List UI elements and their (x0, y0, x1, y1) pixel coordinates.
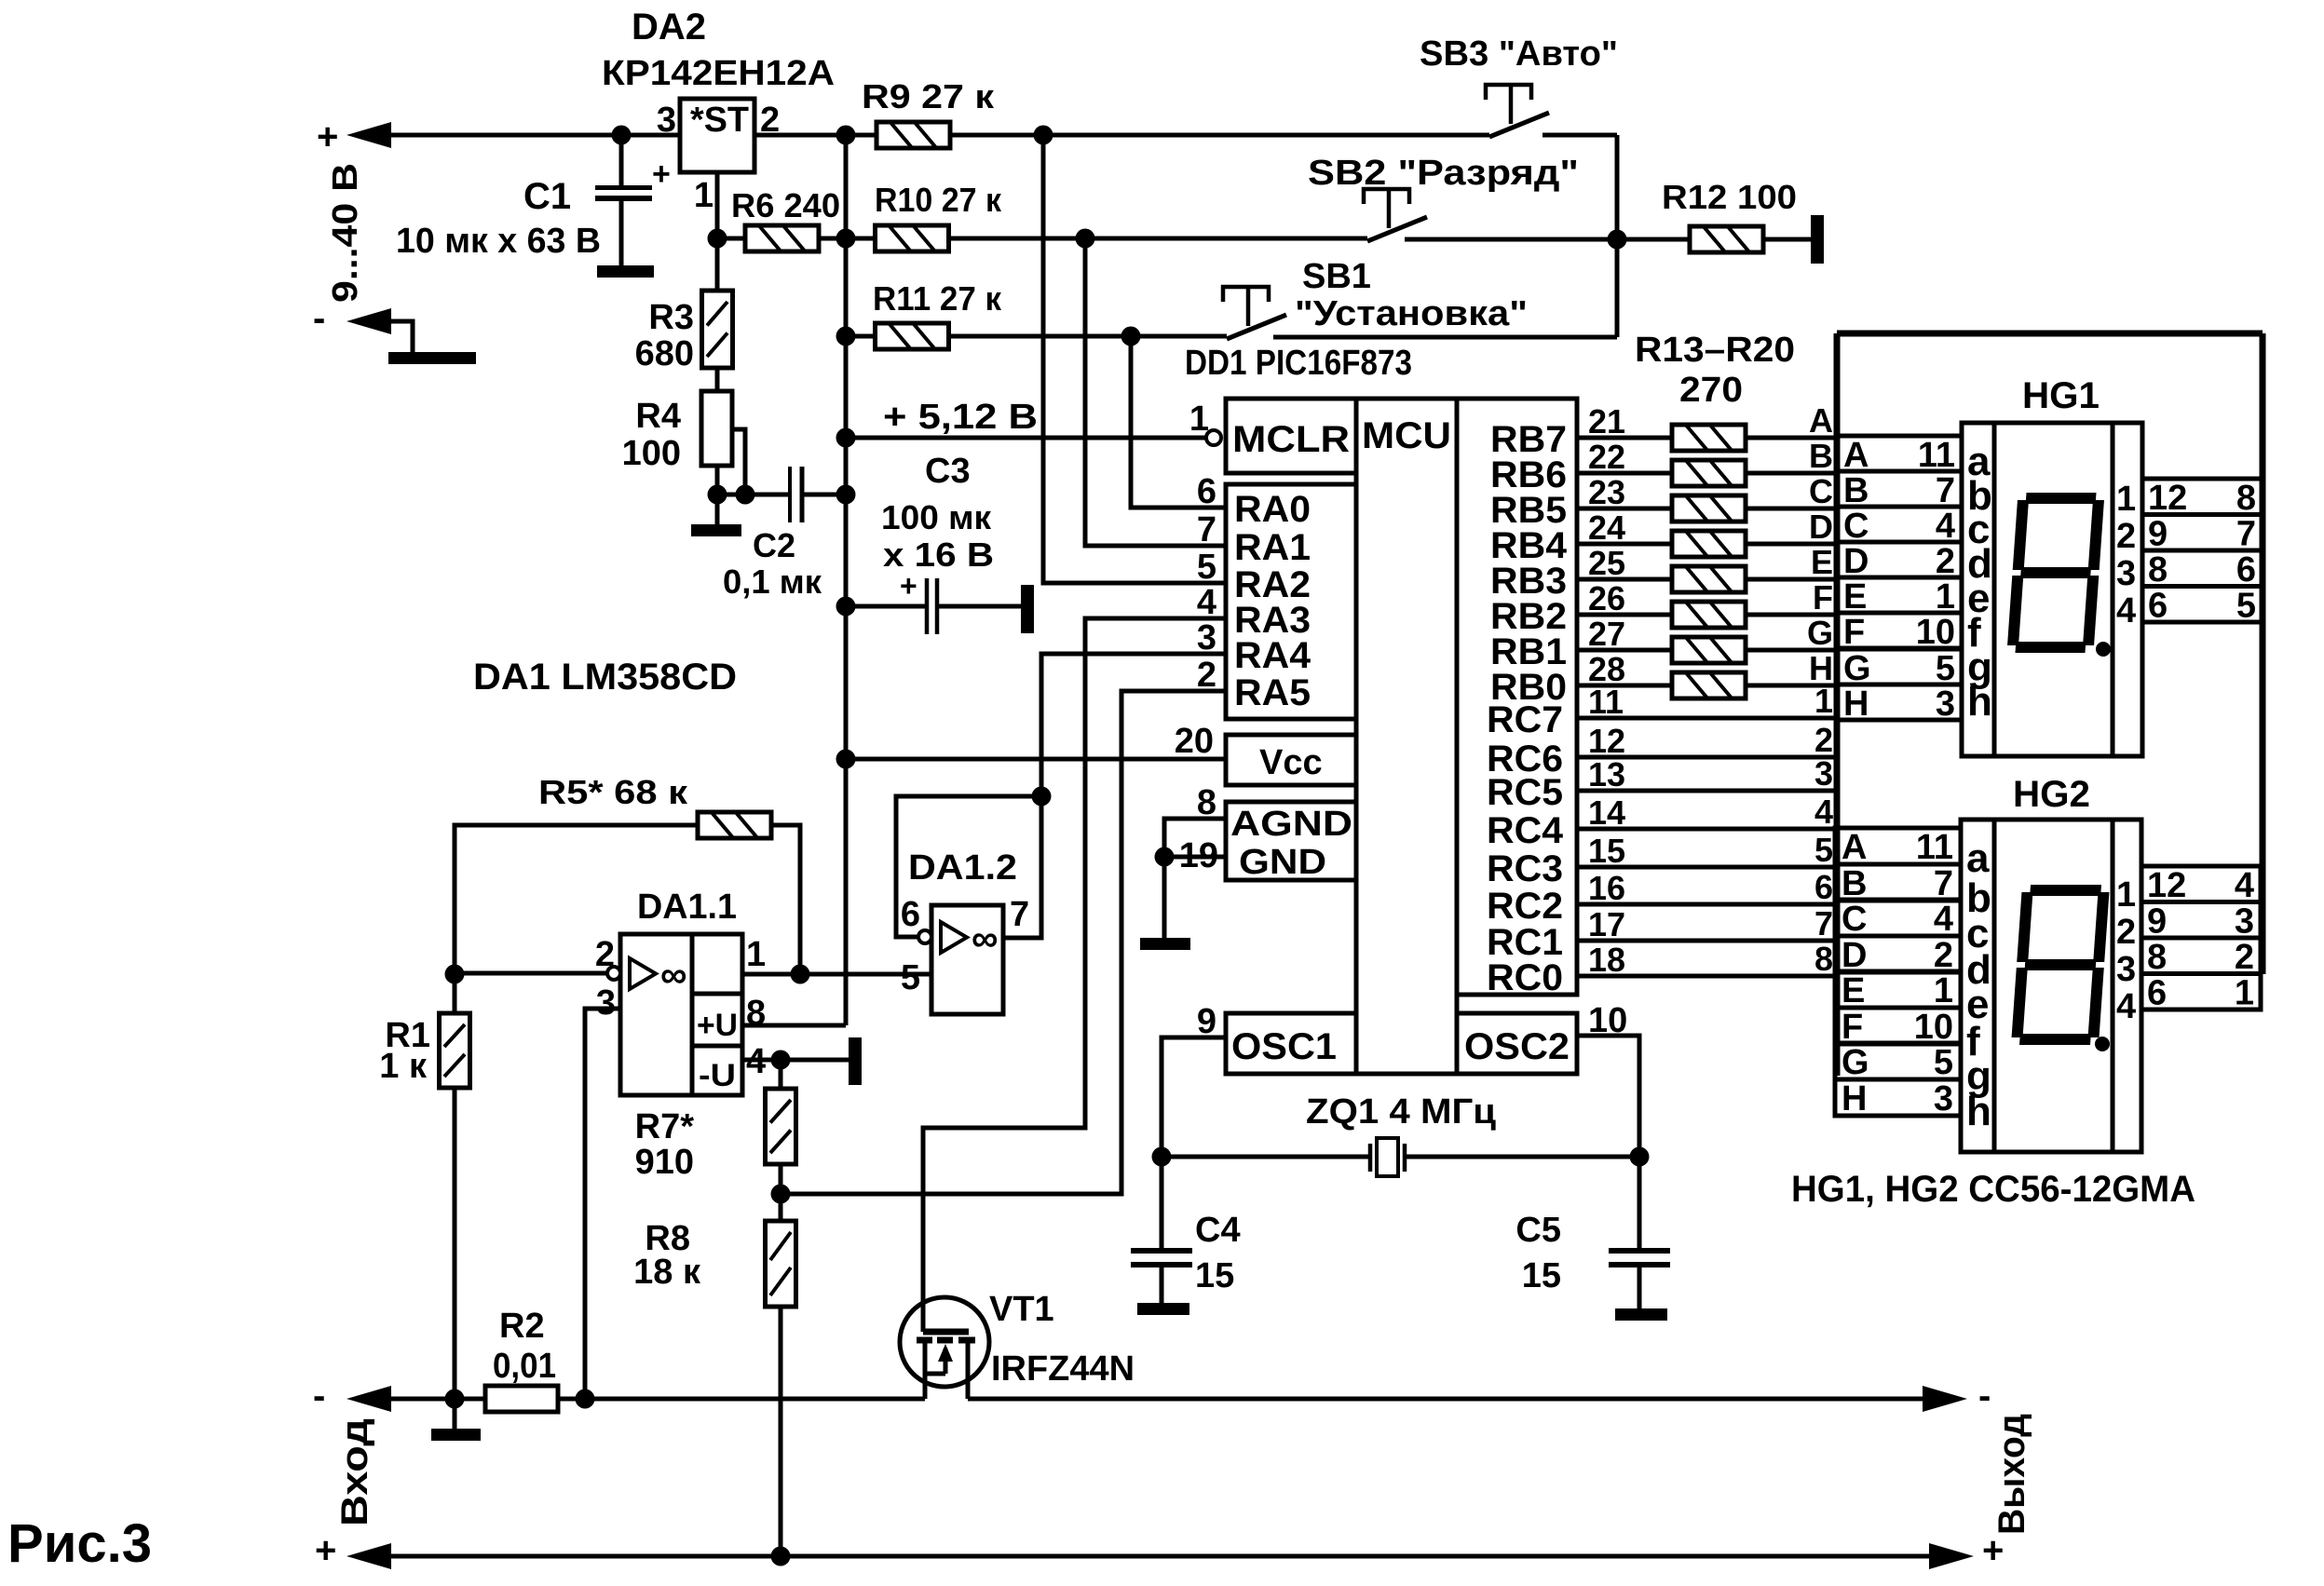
wire AGND bracket (1164, 819, 1226, 938)
svg-text:6: 6 (2236, 550, 2256, 590)
wire SB1 node to RA0 (1131, 336, 1227, 508)
resistor R17 (1672, 566, 1746, 592)
svg-text:DA2: DA2 (632, 7, 706, 47)
svg-text:270: 270 (1679, 371, 1743, 410)
wire input minus to ground (389, 321, 413, 352)
svg-text:-: - (313, 1376, 325, 1417)
junction (1736,257) (1608, 230, 1627, 250)
svg-text:AGND: AGND (1230, 805, 1352, 844)
svg-text:7: 7 (1010, 895, 1029, 934)
wire inverting input (455, 971, 607, 976)
junction (908,470) (836, 428, 856, 448)
svg-text:Рис.3: Рис.3 (7, 1513, 152, 1574)
HG1 pin cell 8-6 (2142, 550, 2263, 587)
wire RB7 stub (1577, 436, 1672, 441)
wire output pin1 to DA1.2 pin5 (742, 972, 931, 977)
HG1 pin cell E1 (1837, 577, 1962, 613)
svg-text:SB3 "Авто": SB3 "Авто" (1420, 34, 1618, 74)
display module box (1837, 331, 2263, 337)
svg-text:17: 17 (1588, 905, 1625, 943)
wire DA1.2 feedback loop (896, 796, 1041, 937)
svg-text:1: 1 (2116, 480, 2136, 519)
button SB2 (1367, 217, 1427, 241)
svg-text:21: 21 (1588, 402, 1625, 441)
svg-text:25: 25 (1588, 544, 1625, 582)
wire pin1 node to R6 (717, 237, 745, 241)
svg-text:1 к: 1 к (379, 1047, 428, 1086)
svg-text:14: 14 (1588, 793, 1625, 832)
svg-text:8: 8 (1814, 940, 1833, 978)
HG2 pin cell D2 (1835, 936, 1961, 972)
ground input (388, 352, 476, 364)
voltage regulator DA2 (680, 99, 754, 172)
wire input minus rail (389, 1397, 485, 1402)
svg-text:HG1: HG1 (2022, 375, 2100, 416)
junction (1118,855) (1032, 787, 1052, 807)
svg-text:Vcc: Vcc (1259, 743, 1323, 782)
wire SB corner down to SB1 line (1615, 135, 1620, 337)
svg-text:11: 11 (1588, 683, 1624, 721)
svg-text:F: F (1843, 613, 1865, 652)
junction (838,1671) (771, 1547, 791, 1566)
wire R20 to display box (1746, 684, 1837, 688)
wire Vcc rail (846, 757, 1226, 762)
svg-text:18 к: 18 к (633, 1253, 701, 1292)
wire RB0 stub (1577, 684, 1672, 688)
svg-text:R7*: R7* (635, 1107, 695, 1146)
junction (908,651) (836, 597, 856, 617)
svg-text:+ 5,12 В: + 5,12 В (883, 398, 1038, 437)
resistor R6 (745, 225, 819, 251)
svg-text:OSC1: OSC1 (1231, 1026, 1337, 1067)
HG1 pin cell G5 (1837, 649, 1962, 685)
wire RB5 stub (1577, 507, 1672, 511)
wire RB2 stub (1577, 613, 1672, 617)
svg-text:1: 1 (2235, 974, 2254, 1013)
terminal bar C3 (1021, 585, 1034, 633)
junction (838,1138) (771, 1051, 791, 1070)
svg-text:1: 1 (1934, 971, 1953, 1010)
svg-text:MCU: MCU (1362, 415, 1451, 456)
wire DA2 pin2 to R9 (754, 133, 877, 138)
wire -U pin4 to common (742, 1058, 850, 1063)
svg-text:R2: R2 (499, 1307, 545, 1346)
svg-text:ZQ1 4 МГц: ZQ1 4 МГц (1306, 1092, 1497, 1132)
DD1 RB RC cell (1457, 399, 1577, 995)
junction (667,145) (612, 126, 632, 145)
junction (770,531) (708, 485, 727, 505)
svg-text:7: 7 (2236, 515, 2256, 554)
svg-text:"Установка": "Установка" (1295, 294, 1528, 333)
wire VT1 drain to output (968, 1397, 1923, 1402)
HG2 pin cell 9-3 (2141, 902, 2261, 939)
svg-text:+U: +U (697, 1008, 738, 1043)
svg-text:RA4: RA4 (1234, 635, 1311, 676)
svg-text:R9 27 к: R9 27 к (862, 77, 995, 115)
svg-text:100 мк: 100 мк (881, 498, 992, 536)
svg-text:3: 3 (657, 101, 676, 140)
svg-text:E: E (1811, 543, 1833, 581)
svg-text:VT1: VT1 (989, 1290, 1054, 1329)
svg-text:6: 6 (2147, 974, 2167, 1013)
svg-text:HG2: HG2 (2013, 774, 2090, 815)
terminal bar R12 (1811, 215, 1824, 264)
svg-text:5: 5 (1197, 548, 1216, 587)
HG2 pin cell E1 (1835, 971, 1961, 1008)
svg-text:+: + (652, 156, 671, 192)
wire RC2 to display box (1577, 902, 1837, 907)
svg-text:H: H (1843, 685, 1869, 724)
wire R9 to SB3 (950, 133, 1489, 138)
svg-text:-U: -U (699, 1058, 736, 1093)
svg-text:3: 3 (2116, 554, 2136, 593)
svg-text:MCLR: MCLR (1232, 419, 1350, 460)
svg-text:15: 15 (1588, 832, 1625, 870)
svg-text:6: 6 (1197, 472, 1216, 511)
svg-text:КР142ЕН12А: КР142ЕН12А (602, 54, 835, 93)
DD1 OSC1 cell (1226, 1013, 1356, 1074)
DD1 MCLR cell (1226, 399, 1356, 473)
svg-text:1: 1 (1189, 400, 1209, 439)
svg-text:SB1: SB1 (1302, 257, 1371, 296)
svg-text:GND: GND (1239, 843, 1326, 882)
wire feedback R5 left (455, 825, 698, 974)
svg-text:R6 240: R6 240 (731, 186, 840, 224)
node output minus arrow (1923, 1386, 1967, 1412)
svg-text:E: E (1842, 971, 1865, 1010)
junction (859,1046) (791, 965, 810, 984)
wire R7 to R8 (779, 1164, 783, 1221)
wire RA3 to VT1 gate (923, 618, 1226, 1332)
svg-text:13: 13 (1588, 755, 1625, 793)
resistor R18 (1672, 602, 1746, 628)
wire RC7 to display box (1577, 716, 1837, 721)
junction (1760,1242) (1630, 1147, 1650, 1167)
svg-text:4: 4 (2116, 987, 2136, 1026)
ground DD1 (1140, 938, 1190, 950)
wire OSC1 to crystal (1162, 1037, 1226, 1157)
svg-text:15: 15 (1195, 1256, 1234, 1295)
HG1 pin cell F10 (1837, 613, 1962, 648)
HG1 decimal point (2096, 642, 2111, 657)
svg-text:3: 3 (1934, 1079, 1953, 1118)
svg-text:3: 3 (1936, 685, 1955, 724)
svg-text:RC4: RC4 (1487, 810, 1564, 851)
pin 1 MCLR circle (1206, 430, 1221, 445)
wire R11 to SB1 (948, 334, 1227, 339)
svg-text:26: 26 (1588, 579, 1625, 617)
junction (1214,361) (1121, 327, 1141, 346)
wire RC6 to display box (1577, 755, 1837, 760)
svg-text:RA0: RA0 (1234, 489, 1311, 530)
junction (1120,145) (1034, 126, 1053, 145)
svg-text:23: 23 (1588, 473, 1625, 511)
junction (628,1502) (576, 1389, 595, 1409)
svg-text:DA1.2: DA1.2 (908, 848, 1017, 888)
HG1 pin cell C4 (1837, 507, 1962, 542)
svg-text:2: 2 (2235, 938, 2254, 977)
svg-text:G: G (1807, 614, 1833, 652)
svg-text:5: 5 (1934, 1043, 1953, 1082)
resistor R7 (779, 1060, 783, 1089)
wire OSC2 to crystal (1577, 1036, 1639, 1157)
svg-text:10 мк x 63 В: 10 мк x 63 В (396, 222, 601, 261)
junction (908,361) (836, 327, 856, 346)
node -input arrow (347, 308, 391, 334)
wire RB6 stub (1577, 471, 1672, 476)
svg-text:3: 3 (2235, 902, 2254, 942)
svg-text:0,1 мк: 0,1 мк (723, 563, 822, 601)
wire DA1.2 output to RA4 (1041, 654, 1226, 796)
wire SB1 to corner (1273, 335, 1617, 340)
wire R5 to output node (770, 825, 800, 974)
wire R13 to display box (1746, 436, 1837, 441)
wire R2 to VT1 source rail (558, 1397, 925, 1402)
svg-text:9: 9 (2148, 515, 2168, 554)
wire +5.12V to MCLR (846, 436, 1206, 441)
junction (908,145) (836, 126, 856, 145)
svg-text:22: 22 (1588, 438, 1625, 476)
node output plus arrow (1929, 1543, 1974, 1569)
HG2 pin cell A11 (1835, 828, 1961, 864)
button SB1 (1227, 315, 1286, 339)
resistor R1 (453, 974, 457, 1013)
wire top rail to DA2 pin3 (389, 133, 680, 138)
wire SB3 node to RA2 (1043, 135, 1227, 583)
wire RC3 to display box (1577, 865, 1837, 870)
svg-text:18: 18 (1588, 941, 1625, 979)
svg-text:27: 27 (1588, 615, 1625, 653)
HG2 pin cell F10 (1835, 1008, 1961, 1044)
wire R15 to display box (1746, 507, 1837, 511)
svg-text:HG1, HG2 CC56-12GMA: HG1, HG2 CC56-12GMA (1791, 1169, 2195, 1210)
wire RB3 stub (1577, 577, 1672, 582)
ground C4 (1137, 1303, 1189, 1315)
svg-text:5: 5 (2236, 587, 2256, 626)
DD1 OSC2 cell (1457, 1013, 1577, 1074)
junction (770,256) (708, 229, 727, 249)
wire SB3 to corner (1543, 133, 1617, 138)
svg-text:8: 8 (2147, 938, 2167, 977)
wire R11 rail (846, 334, 876, 339)
svg-text:Вход: Вход (334, 1418, 375, 1526)
svg-text:R10 27 к: R10 27 к (875, 181, 1002, 219)
junction (838,1282) (771, 1185, 791, 1204)
svg-text:D: D (1809, 508, 1833, 546)
wire R19 to display box (1746, 648, 1837, 653)
svg-text:DA1.1: DA1.1 (637, 888, 737, 927)
capacitor C3 (846, 604, 927, 609)
svg-text:12: 12 (2147, 866, 2186, 905)
resistor R8 (766, 1221, 796, 1307)
svg-text:R5* 68 к: R5* 68 к (538, 773, 688, 811)
svg-text:4: 4 (1934, 900, 1953, 939)
svg-text:2: 2 (2116, 517, 2136, 556)
junction (908,531) (836, 485, 856, 505)
svg-text:1: 1 (2116, 875, 2136, 915)
svg-text:4: 4 (2116, 591, 2136, 630)
svg-text:4: 4 (1814, 793, 1833, 831)
svg-text:C: C (1809, 472, 1833, 510)
svg-text:680: 680 (635, 334, 694, 373)
svg-text:3: 3 (596, 983, 616, 1023)
svg-text:A: A (1842, 828, 1867, 867)
svg-text:R4: R4 (635, 397, 681, 436)
svg-text:2: 2 (595, 935, 615, 974)
display HG2 body (1961, 820, 2141, 1152)
HG2 pin cell G5 (1835, 1043, 1961, 1079)
svg-text:∞: ∞ (660, 955, 687, 996)
svg-text:9...40 В: 9...40 В (326, 163, 365, 303)
HG1 pin cell D2 (1837, 542, 1962, 577)
wire R10 to SB2 (948, 237, 1367, 241)
op-amp DA1.1 (620, 934, 742, 1095)
HG2 pin cell 6-1 (2141, 974, 2261, 1010)
HG1 pin cell B7 (1837, 471, 1962, 507)
svg-text:9: 9 (2147, 902, 2167, 942)
svg-text:RC2: RC2 (1487, 886, 1563, 927)
svg-text:R11 27 к: R11 27 к (873, 279, 1002, 318)
svg-text:+: + (900, 569, 917, 603)
HG1 pin cell 6-5 (2142, 587, 2263, 623)
resistor R5 (698, 812, 771, 838)
svg-text:-: - (1978, 1376, 1991, 1417)
svg-text:C1: C1 (523, 176, 571, 217)
svg-text:15: 15 (1522, 1256, 1561, 1295)
svg-text:B: B (1809, 437, 1833, 475)
svg-text:6: 6 (2148, 587, 2168, 626)
junction (1250,920) (1155, 847, 1175, 867)
node +9...40V input arrow (347, 122, 391, 148)
svg-text:11: 11 (1916, 828, 1953, 867)
svg-text:10: 10 (1916, 613, 1955, 652)
svg-text:+: + (315, 1530, 336, 1571)
svg-text:∞: ∞ (972, 918, 999, 959)
svg-text:+: + (317, 116, 338, 157)
wire R18 to display box (1746, 613, 1837, 617)
transistor VT1 IRFZ44N (900, 1297, 989, 1387)
resistor R19 (1672, 637, 1746, 663)
resistor R14 (1672, 460, 1746, 486)
svg-text:G: G (1842, 1043, 1869, 1082)
HG1 pin cell 9-7 (2142, 515, 2263, 551)
capacitor C5 (1638, 1157, 1642, 1251)
svg-text:R13–R20: R13–R20 (1635, 331, 1795, 370)
wire R4 to ground (715, 466, 720, 495)
svg-text:DA1 LM358CD: DA1 LM358CD (473, 657, 737, 698)
junction (908,256) (836, 229, 856, 249)
svg-text:8: 8 (2148, 550, 2168, 590)
resistor R2 (485, 1386, 558, 1412)
DD1 Vcc cell (1226, 735, 1356, 785)
HG1 pin cell A11 (1837, 436, 1962, 471)
terminal bar -U (849, 1037, 862, 1085)
pin 2 input circle (607, 967, 620, 980)
svg-text:4: 4 (2235, 866, 2254, 905)
svg-text:16: 16 (1588, 869, 1625, 907)
svg-text:3: 3 (2116, 950, 2136, 989)
resistor R10 (876, 225, 949, 251)
svg-text:RC7: RC7 (1487, 699, 1563, 740)
svg-text:6: 6 (901, 895, 920, 934)
svg-text:C3: C3 (925, 452, 971, 491)
wire plus rail (389, 1554, 1929, 1559)
svg-text:Выход: Выход (1991, 1414, 2032, 1535)
svg-text:7: 7 (1814, 904, 1833, 942)
svg-text:h: h (1967, 679, 1992, 725)
DD1 MCU middle box (1356, 399, 1457, 1074)
wire RB1 stub (1577, 648, 1672, 653)
wire DA2 pin1 down (715, 172, 720, 238)
resistor R3 (715, 238, 720, 291)
svg-text:h: h (1966, 1089, 1991, 1134)
HG2 pin cell 8-2 (2141, 938, 2261, 974)
wire SB2 node to RA1 (1085, 238, 1227, 546)
capacitor C4 (1160, 1157, 1164, 1251)
button SB3 (1489, 113, 1549, 137)
svg-text:3: 3 (1814, 754, 1833, 793)
svg-text:6: 6 (1814, 868, 1833, 906)
HG2 pin cell H3 (1835, 1079, 1961, 1116)
svg-text:24: 24 (1588, 508, 1625, 547)
svg-text:C5: C5 (1515, 1211, 1561, 1250)
wire crystal right (1405, 1155, 1639, 1159)
svg-text:2: 2 (2116, 913, 2136, 952)
wire R8 to plus rail (779, 1307, 783, 1556)
HG2 pin cell B7 (1835, 864, 1961, 901)
svg-text:1: 1 (1814, 682, 1833, 720)
svg-text:RC0: RC0 (1487, 957, 1563, 998)
junction (488,1502) (445, 1389, 465, 1409)
op-amp DA1.2 (931, 905, 1003, 1014)
crystal ZQ1 (1368, 1144, 1373, 1172)
wire RC0 to display box (1577, 974, 1837, 979)
wire SB2 to R12 (1405, 237, 1689, 242)
resistor R4 (with tap) (715, 368, 720, 391)
resistor R20 (1672, 672, 1746, 698)
DD1 AGND GND cell (1226, 802, 1356, 880)
svg-text:х 16 В: х 16 В (883, 535, 994, 574)
svg-text:5: 5 (901, 958, 920, 997)
svg-text:OSC2: OSC2 (1464, 1026, 1570, 1067)
svg-text:R3: R3 (648, 298, 694, 337)
ground C5 (1615, 1308, 1667, 1321)
svg-text:20: 20 (1175, 722, 1214, 761)
svg-text:F: F (1813, 578, 1833, 617)
wire GND stub (1164, 855, 1226, 860)
svg-text:R12 100: R12 100 (1662, 178, 1797, 216)
HG2 seven segment digit (2017, 890, 2103, 1039)
ground C1 (597, 265, 654, 278)
svg-text:7: 7 (1197, 510, 1216, 549)
svg-text:C2: C2 (753, 526, 795, 564)
wire R6 to R10 (819, 237, 876, 241)
svg-text:RA5: RA5 (1234, 672, 1311, 713)
wire RC5 to display box (1577, 789, 1837, 793)
HG2 decimal point (2095, 1037, 2110, 1051)
svg-text:12: 12 (2148, 479, 2187, 518)
svg-text:RC5: RC5 (1487, 772, 1563, 813)
ground R4 (691, 524, 741, 536)
capacitor C1 (619, 135, 624, 185)
svg-text:*ST: *ST (690, 101, 749, 140)
svg-text:1: 1 (746, 935, 766, 974)
resistor R15 (1672, 495, 1746, 522)
junction (488,1046) (445, 965, 465, 984)
HG2 pin cell 12-4 (2141, 866, 2261, 902)
svg-text:SB2 "Разряд": SB2 "Разряд" (1308, 154, 1579, 193)
svg-text:910: 910 (635, 1143, 694, 1182)
